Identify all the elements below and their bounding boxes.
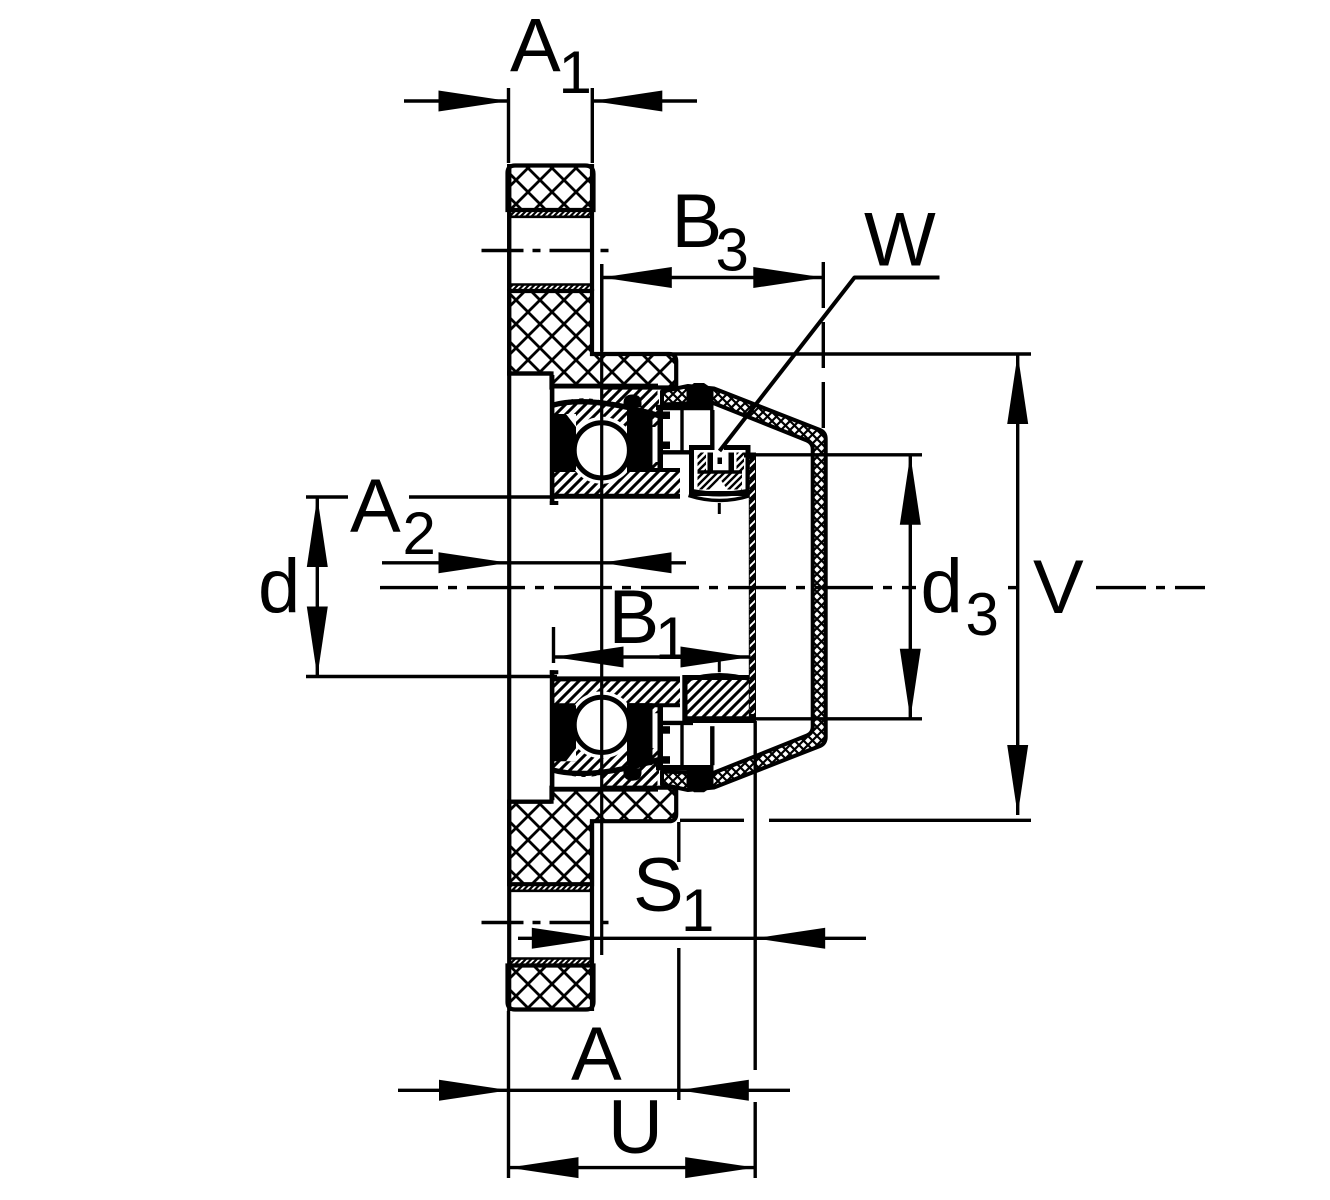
flange upper gasket band [508, 210, 594, 218]
dimension d line [316, 497, 319, 677]
svg-text:3: 3 [966, 581, 999, 648]
upper ball [574, 423, 629, 478]
lower flinger dome dashes [631, 771, 633, 777]
svg-text:1: 1 [559, 39, 592, 106]
set screw socket center dot [718, 458, 723, 465]
lower ball [574, 697, 629, 752]
flange mid block lower border [507, 800, 551, 804]
dimension d3 line [909, 455, 912, 719]
dimension B3 right extension (dashed) [822, 262, 825, 433]
upper ball race clearance [568, 417, 635, 484]
housing upper cross-hatched body [509, 291, 676, 388]
upper collar inner edge [680, 410, 683, 452]
lower inner ring race line [554, 703, 681, 707]
lower seal right (black) [627, 703, 653, 765]
outer ring upper section hatch [552, 397, 659, 471]
upper flinger strip (black) [658, 409, 664, 471]
lower hole center dash [718, 661, 721, 672]
housing boss bottom face (thick) [552, 384, 659, 389]
upper seal left notch [566, 414, 576, 427]
lower ball race clearance [568, 691, 635, 758]
housing lower cross-hatched body [509, 788, 676, 885]
svg-text:U: U [608, 1085, 663, 1170]
dimension A1 extension lines [507, 88, 510, 163]
upper sleeve face under collar [663, 450, 693, 454]
upper collar tabs [663, 412, 670, 420]
dimension V line [1016, 354, 1019, 815]
svg-text:d: d [258, 544, 300, 629]
outer ring lower spherical seat curve [552, 760, 659, 774]
dimension V top extension [602, 352, 1031, 355]
svg-text:S: S [633, 843, 684, 928]
dimension d extension lines [306, 495, 348, 498]
set screw bottom face [692, 492, 748, 495]
lower housing bore clearance strip (white) [554, 771, 602, 787]
screw hole center dash [718, 503, 721, 514]
svg-text:W: W [864, 198, 936, 283]
upper collar outer edge [710, 410, 714, 449]
dimension B3 left extension [600, 264, 603, 351]
lower seal right slot (white) [653, 713, 658, 748]
dimension B1 left extension [552, 627, 555, 663]
sleeve bottom face (thick) [685, 716, 756, 721]
upper flinger dome dashes [631, 398, 633, 404]
bearing left face bar upper [550, 375, 555, 505]
dimension V bottom extension [680, 819, 744, 822]
flange lower gasket band (upper window) [508, 284, 594, 292]
set screw right thread hatch [737, 453, 745, 472]
lower sleeve face above collar [663, 721, 693, 725]
outer ring upper top sliver hatch [602, 389, 658, 414]
upper bolt hole centerline [482, 249, 609, 252]
sleeve top face (thick) [744, 453, 756, 458]
outer ring spherical seat curve [552, 402, 659, 416]
upper flinger dome [624, 395, 642, 408]
lower collar outer edge [710, 726, 714, 765]
lower collar tabs [663, 756, 670, 764]
lower bolt hole centerline [482, 921, 609, 924]
bearing axis vertical line [600, 264, 603, 955]
flange mid block bottom border [507, 371, 551, 375]
dimension S1 line [518, 937, 866, 940]
dimension A line [398, 1089, 790, 1092]
screw hole bottom arc [689, 496, 751, 501]
svg-text:1: 1 [655, 605, 688, 672]
svg-text:3: 3 [716, 217, 749, 284]
dimension U line [509, 1166, 756, 1169]
cap rim clip top [687, 383, 714, 407]
svg-text:2: 2 [403, 500, 436, 567]
set screw lower hatch [698, 472, 743, 490]
svg-text:1: 1 [681, 877, 714, 944]
dimension A1 line left [404, 99, 509, 102]
upper inner ring bore face (thick) [552, 494, 681, 499]
housing bore clearance strip (white) [554, 389, 602, 405]
upper collar top face (thick) [656, 405, 714, 410]
dimension U left extension [507, 1011, 510, 1178]
bearing left face bar lower [550, 670, 555, 800]
dimension A right extension [677, 822, 680, 862]
svg-text:A: A [510, 4, 561, 89]
lower seal left notch [566, 748, 576, 761]
lower hole top arc [689, 675, 751, 680]
cap rim clip bottom [687, 768, 714, 792]
set screw body outline [692, 448, 749, 494]
svg-text:V: V [1033, 545, 1084, 630]
flange bottom gasket band [508, 958, 594, 966]
svg-text:d: d [921, 544, 963, 629]
dimension d3 extension lines [756, 453, 922, 456]
set screw top gap (white) [715, 444, 725, 452]
dimension B3 line [602, 276, 824, 279]
upper seal right (black) [627, 410, 653, 472]
dimension B1 line [554, 655, 751, 658]
dimension A1 line right [592, 99, 697, 102]
main shaft centerline [380, 586, 916, 589]
outer ring lower section hatch [552, 704, 659, 778]
lower seal left (black) [554, 705, 576, 761]
housing boss top face lower (thick) [552, 786, 659, 791]
lower collar bottom face (thick) [656, 765, 714, 770]
set screw mid line [698, 470, 743, 473]
collar lower hatched block [685, 678, 753, 721]
lower flinger strip (black) [658, 704, 664, 766]
upper seal left (black) [554, 414, 576, 470]
collar block left edge (thick) [683, 678, 688, 721]
dimension U right extension [754, 721, 757, 1070]
outer ring lower bottom sliver hatch [602, 762, 658, 787]
leader W [720, 278, 940, 452]
upper inner ring hatch [554, 471, 681, 495]
dimension A2 line [382, 561, 686, 564]
set screw cup point notch [712, 479, 727, 490]
flange left edge [507, 164, 511, 1011]
lower collar inner edge [680, 723, 683, 765]
flange upper bolt hole window edges [507, 164, 511, 291]
lower inner ring hatch [554, 681, 681, 705]
flange top hatched block [508, 166, 594, 211]
lower flinger dome [624, 768, 642, 781]
shaft sleeve end face bar [749, 453, 756, 722]
upper seal right slot (white) [653, 427, 658, 462]
flange bottom hatched block [508, 966, 594, 1010]
cap shell (diamond hatched wall) [662, 386, 826, 790]
set screw left thread hatch [698, 453, 707, 472]
svg-text:A: A [350, 464, 401, 549]
upper inner ring race line [554, 468, 681, 472]
flange lower gasket band (lower window) [508, 884, 594, 892]
lower inner ring bore face (thick) [552, 676, 681, 681]
flange lower bolt hole window edges [508, 884, 510, 1011]
set screw socket bars [708, 453, 714, 473]
